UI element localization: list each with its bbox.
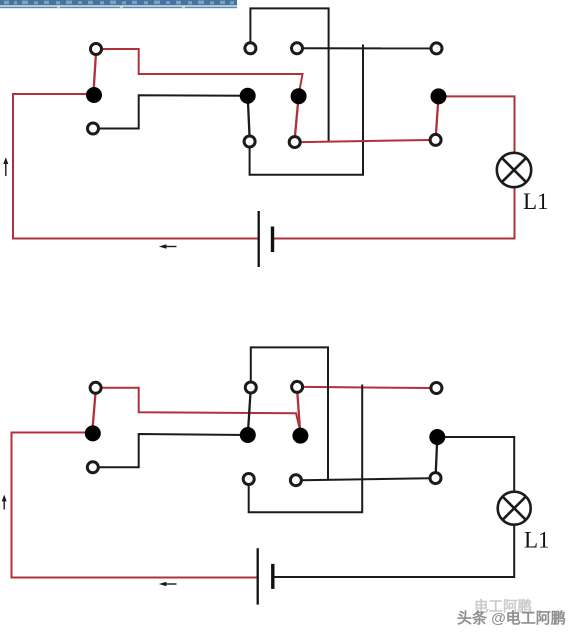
switch S5 right lever (red, to top-right contact) xyxy=(297,393,300,435)
lamp L1 (top) xyxy=(497,153,531,187)
wire: S3 common to lamp (red) xyxy=(439,96,515,153)
switch S5 top-left contact xyxy=(245,382,256,393)
current arrow left (bottom rail, top circuit) xyxy=(159,244,177,249)
switch S2 bottom-right contact xyxy=(289,137,300,148)
wire: S5 bottom-right contact to S6 bottom contact (black) xyxy=(302,478,430,480)
switch S5 bottom-right contact xyxy=(290,475,301,486)
switch S3 lever (red, to bottom contact) xyxy=(436,96,439,133)
current arrow up (left rail, top circuit) xyxy=(3,157,8,176)
wire: S2 top-right contact to S3 top contact (black) xyxy=(303,47,431,49)
switch S3 common pole xyxy=(431,88,447,104)
switch S5 right pole xyxy=(292,428,308,444)
switch S4 lever (red, to top contact) xyxy=(92,394,95,431)
wire: lamp to battery (black right/bottom rail) xyxy=(274,524,514,577)
wire: S2 bottom-right contact to S3 bottom contact (red) xyxy=(301,140,430,142)
wire: S2 cross link top-left to bottom-right net (black box) xyxy=(250,8,328,141)
switch S1 common pole xyxy=(86,87,102,103)
wire: battery+ to S4 common (red left rail) xyxy=(12,433,257,578)
switch S2 top-left contact xyxy=(245,43,256,54)
wire: battery+ to S1 common (red left rail) xyxy=(13,94,258,239)
switch S4 common pole xyxy=(85,425,101,441)
wire: S5 top-right contact to S6 top contact (red) xyxy=(304,387,431,388)
wire: S1 top contact to S2 right pole (red) xyxy=(101,49,303,93)
switch S4 top contact xyxy=(90,382,101,393)
wire: S6 common to lamp (black) xyxy=(437,437,514,492)
switch S6 lever (black, to bottom contact) xyxy=(436,437,438,472)
wire: S4 bottom contact to S5 left pole (black) xyxy=(98,434,248,467)
switch S5 bottom-left contact xyxy=(243,474,254,485)
switch S3 bottom contact xyxy=(430,134,441,145)
svg-text:L1: L1 xyxy=(523,189,549,214)
switch S2 left lever (black, to bottom-left contact) xyxy=(248,96,250,136)
battery B2 short plate (-) xyxy=(271,564,274,589)
switch S5 top-right contact xyxy=(292,381,303,392)
switch S2 bottom-left contact xyxy=(244,136,255,147)
switch S5 left lever (black, to top-left contact) xyxy=(248,394,251,435)
battery B2 long plate (+) xyxy=(257,548,259,604)
switch S1 top contact xyxy=(91,44,102,55)
switch S2 top-right contact xyxy=(292,43,303,54)
switch S6 top contact xyxy=(431,383,442,394)
lamp L1 (bottom) xyxy=(498,492,531,525)
switch S3 top contact xyxy=(431,43,442,54)
switch S5 left pole xyxy=(240,427,256,443)
battery B1 short plate (-) xyxy=(271,227,274,253)
svg-text:头条 @电工阿鹏: 头条 @电工阿鹏 xyxy=(457,609,566,627)
wire: S2 cross link top-right to bottom-left (black) xyxy=(250,45,363,175)
wire: S1 bottom contact to S2 left pole (black) xyxy=(99,95,248,128)
switch S6 bottom contact xyxy=(430,473,441,484)
switch S1 lever (red, to top contact) xyxy=(94,56,96,94)
switch S1 bottom contact xyxy=(88,123,99,134)
switch S2 right pole xyxy=(291,88,307,104)
wire: S5 cross link top-right to bottom-left (black) xyxy=(249,385,363,513)
switch S4 bottom contact xyxy=(87,462,98,473)
battery B1 long plate (+) xyxy=(258,211,260,267)
switch S2 right lever (red, to bottom-right contact) xyxy=(295,96,299,136)
wire: lamp to battery (red right/bottom rail) xyxy=(274,187,515,239)
switch S2 left pole xyxy=(240,88,256,104)
switch S6 common pole xyxy=(429,429,445,445)
wire: S4 top contact to S5 right pole (red) xyxy=(101,388,301,430)
title link (blue, clipped) xyxy=(0,0,237,8)
current arrow up (left rail, bottom circuit) xyxy=(2,495,7,510)
current arrow left (bottom rail, bottom circuit) xyxy=(159,582,177,587)
wire: S5 cross link top-left to bottom-right net (black box) xyxy=(251,347,328,480)
svg-text:L1: L1 xyxy=(524,528,550,553)
